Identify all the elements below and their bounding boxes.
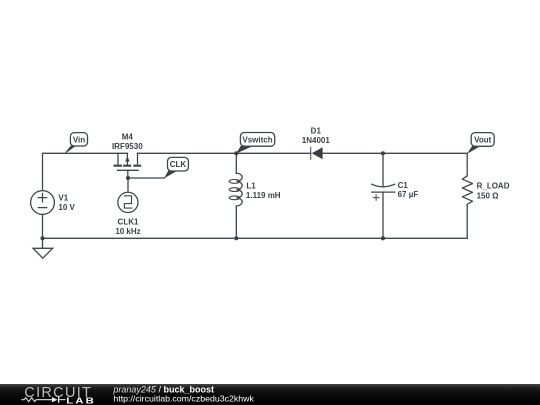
svg-text:67 µF: 67 µF — [398, 190, 419, 199]
wire: D1 anode to R_LOAD corner — [323, 152, 468, 154]
ground — [33, 238, 53, 258]
svg-text:L1: L1 — [246, 182, 256, 191]
wire top rail: V1 to M4 source — [43, 152, 128, 154]
junction C1 top — [381, 151, 385, 155]
svg-text:1.119 mH: 1.119 mH — [246, 191, 281, 200]
clock source CLK1 — [118, 192, 138, 212]
resistor R_LOAD — [462, 153, 472, 238]
wire: gate node to CLK flag — [128, 177, 165, 179]
svg-text:LAB: LAB — [66, 397, 96, 405]
node Vswitch flag — [236, 133, 274, 154]
wire: gate node down to CLK1 — [127, 178, 129, 192]
wire bottom rail — [43, 237, 468, 239]
footer bar — [0, 384, 540, 405]
junction at gate node — [126, 176, 130, 180]
svg-text:Vout: Vout — [474, 136, 492, 145]
svg-text:R_LOAD: R_LOAD — [477, 182, 510, 191]
svg-text:V1: V1 — [58, 194, 68, 203]
CircuitLab logo — [21, 385, 96, 405]
svg-text:http://circuitlab.com/czbedu3c: http://circuitlab.com/czbedu3c2khwk — [113, 394, 254, 404]
svg-text:150 Ω: 150 Ω — [477, 192, 500, 201]
svg-text:1N4001: 1N4001 — [302, 136, 331, 145]
svg-text:10 kHz: 10 kHz — [115, 227, 140, 236]
junction C1 bottom — [381, 236, 385, 240]
voltage source V1 — [31, 153, 55, 238]
svg-text:C1: C1 — [398, 181, 409, 190]
svg-text:D1: D1 — [311, 127, 322, 136]
capacitor C1 — [372, 153, 395, 238]
node Vout flag — [467, 133, 494, 154]
node CLK flag — [164, 157, 188, 178]
svg-text:Vin: Vin — [73, 135, 85, 144]
svg-text:Vswitch: Vswitch — [242, 136, 272, 145]
inductor L1 — [229, 153, 242, 238]
junction at Vswitch node — [234, 151, 238, 155]
svg-text:10 V: 10 V — [58, 203, 75, 212]
diode D1 — [311, 147, 323, 159]
svg-text:CLK: CLK — [170, 160, 187, 169]
transistor M4 PMOS — [115, 153, 141, 178]
svg-text:CLK1: CLK1 — [118, 218, 139, 227]
svg-text:IRF9530: IRF9530 — [112, 142, 143, 151]
junction L1 bottom — [234, 236, 238, 240]
wire: M4 drain to D1 cathode — [138, 152, 311, 154]
svg-text:M4: M4 — [122, 133, 134, 142]
node Vin flag — [64, 133, 88, 155]
junction at V1 bottom — [40, 236, 44, 240]
